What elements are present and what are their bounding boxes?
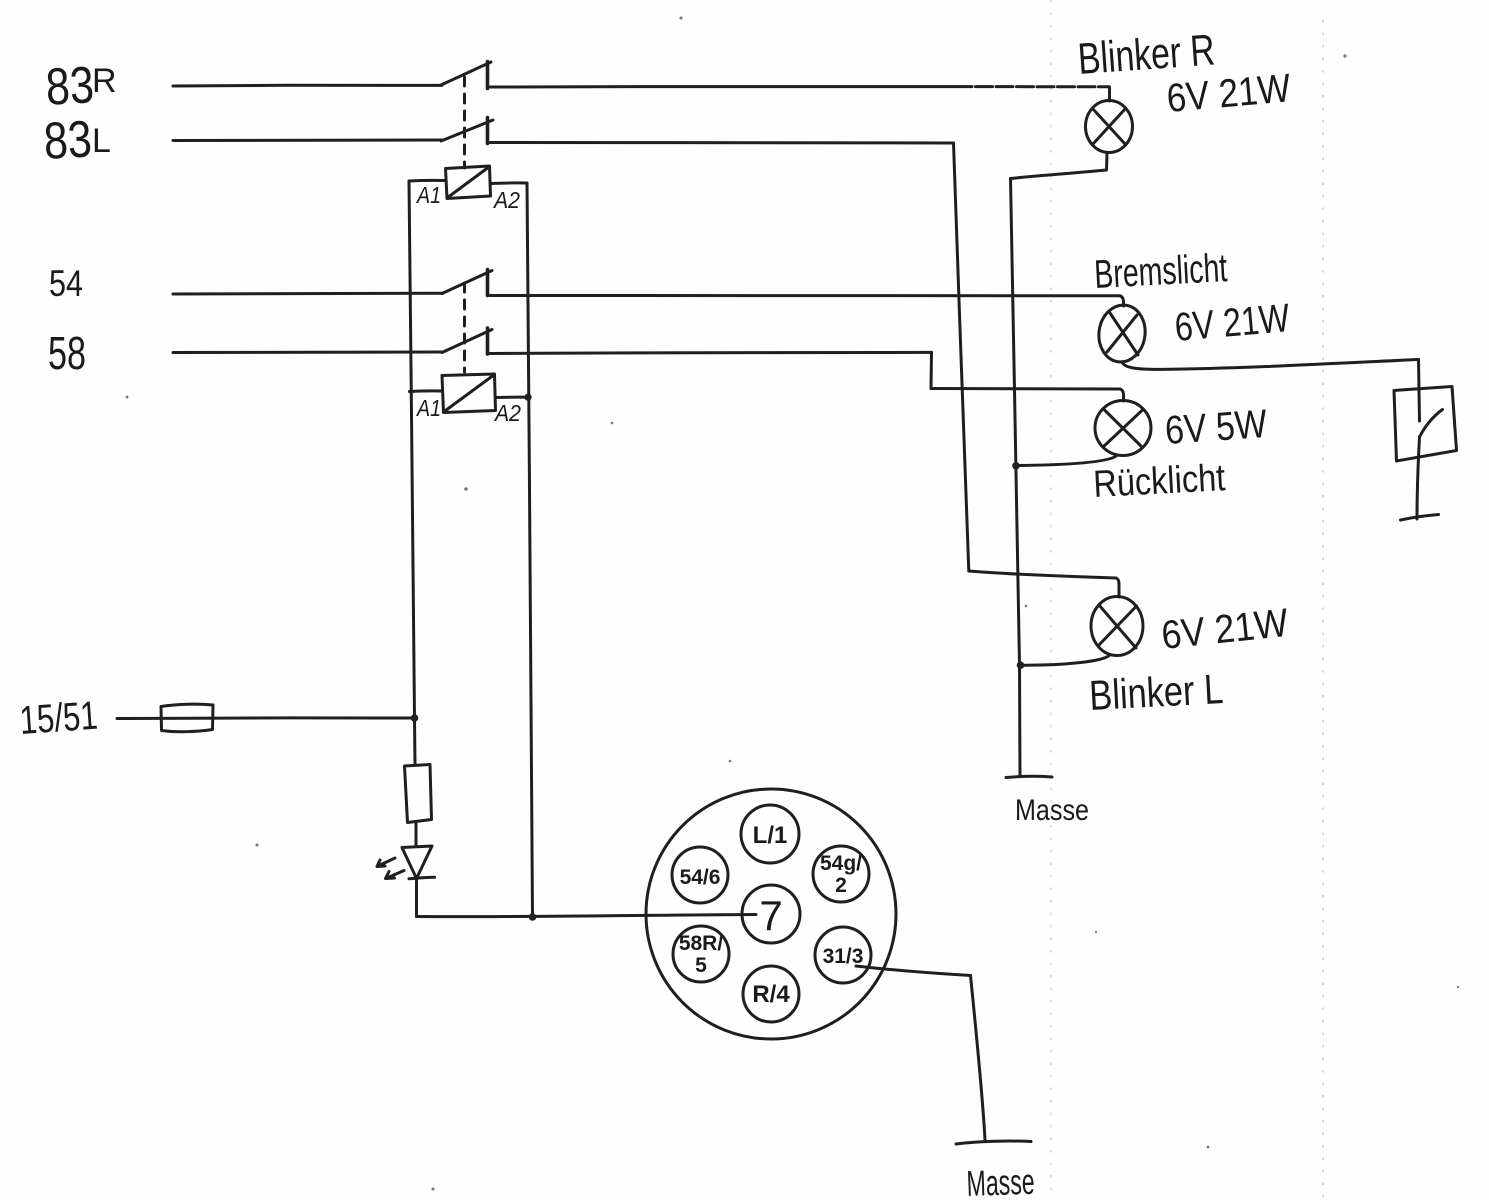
switch contact 83L blade: [441, 120, 493, 141]
svg-text:A2: A2: [492, 187, 520, 213]
LED D1 cathode bar: [409, 877, 435, 879]
connector pin 58R/5: [673, 926, 729, 982]
switch contact 54 fixed tick: [486, 270, 490, 296]
svg-text:A1: A1: [415, 395, 441, 421]
svg-text:Masse: Masse: [966, 1161, 1035, 1200]
relay K2 dashed actuator line: [463, 283, 466, 372]
ground bar right Masse: [1006, 776, 1052, 777]
wire 83L right segment: [490, 141, 954, 145]
relay K2 left lead: [410, 389, 443, 393]
right switch lower lead: [1417, 437, 1420, 519]
LED D1 triangle: [402, 846, 432, 879]
svg-text:54/6: 54/6: [680, 866, 721, 889]
lamp Bremslicht: [1095, 302, 1148, 365]
switch contact 83L fixed tick: [486, 118, 490, 144]
svg-text:Masse: Masse: [1015, 794, 1089, 827]
svg-text:83: 83: [42, 110, 93, 170]
wire 58 left segment: [173, 350, 443, 354]
svg-text:83: 83: [44, 56, 95, 116]
right bus vertical wire: [527, 183, 533, 917]
connector plug outer circle: [646, 789, 896, 1039]
switch contact 58 blade: [442, 330, 492, 353]
switch contact 83R fixed tick: [486, 62, 490, 89]
relay K2 coil box: [442, 374, 496, 413]
switch contact 83R blade: [441, 62, 491, 85]
svg-text:L: L: [92, 122, 111, 160]
fold line right: [1322, 20, 1324, 1200]
svg-text:54: 54: [49, 263, 83, 304]
switch contact 54 blade: [442, 271, 492, 294]
wire 58 jog down: [930, 352, 934, 388]
LED D1 arrow 1: [377, 858, 395, 867]
bottom horizontal wire to connector pin 7: [417, 915, 757, 917]
wire resistor to LED: [415, 823, 418, 847]
ground bar bottom Masse: [956, 1141, 1031, 1144]
label 83 R: [44, 56, 116, 116]
connector pin 31/3: [815, 927, 871, 983]
connector pin 7 center: [742, 885, 800, 943]
svg-text:A2: A2: [493, 400, 521, 426]
connector pin 54/6: [672, 847, 728, 903]
wire 54 right segment to Bremslicht: [490, 294, 1120, 297]
relay K1 coil diagonal: [447, 167, 490, 199]
relay K1 left lead: [409, 179, 446, 183]
wire Bremslicht bottom to right switch: [1122, 360, 1419, 370]
junction 5W to ground bus: [1012, 462, 1020, 470]
lamp Blinker L cross: [1098, 605, 1137, 648]
wire from pin 31/3 to ground: [856, 966, 971, 976]
switch contact 58 fixed tick: [486, 328, 490, 354]
svg-text:54g/: 54g/: [820, 852, 862, 875]
relay K1 coil box: [446, 166, 491, 199]
svg-text:A1: A1: [415, 182, 441, 208]
fuse F1: [161, 704, 213, 732]
wire 58 right segment: [490, 352, 932, 353]
svg-text:58R/: 58R/: [679, 932, 724, 955]
wire corner down into Blinker L lamp: [1116, 578, 1119, 597]
wire Blinker R lamp bottom: [1011, 153, 1108, 179]
svg-text:58: 58: [48, 327, 86, 379]
lamp 5W cross: [1103, 409, 1143, 448]
fold line left: [1050, 0, 1052, 1200]
label 83 L: [42, 110, 111, 170]
connector pin 54g/2: [813, 846, 869, 902]
junction 15/51 to bus: [411, 714, 419, 722]
wire 58 lower horizontal to 5W lamp: [931, 387, 1120, 391]
svg-text:5: 5: [695, 954, 707, 977]
svg-text:31/3: 31/3: [823, 945, 864, 968]
svg-text:R: R: [92, 62, 117, 100]
relay K2 coil diagonal: [444, 375, 495, 413]
wire 54 left segment: [173, 292, 443, 296]
wire corner down into Bremslicht lamp: [1120, 296, 1124, 306]
svg-text:6V 5W: 6V 5W: [1164, 402, 1269, 453]
wire down into right switch: [1419, 360, 1420, 422]
wire 83L left segment: [173, 138, 442, 142]
connector pin L/1: [741, 805, 799, 863]
right lamps ground bus vertical: [1011, 179, 1021, 777]
wire 83L horizontal to Blinker L: [969, 571, 1116, 578]
right switch box: [1394, 387, 1457, 462]
wire 83R right segment to Blinker R lamp: [490, 85, 955, 88]
wire 83R left segment: [173, 84, 442, 88]
connector pin R/4: [743, 966, 799, 1022]
junction Blinker L to ground bus: [1017, 661, 1025, 669]
ground bar right switch: [1401, 515, 1439, 521]
resistor R1: [405, 765, 432, 823]
svg-text:Blinker L: Blinker L: [1088, 665, 1224, 719]
label 15/51 wire: [117, 716, 415, 720]
svg-text:15/51: 15/51: [18, 694, 99, 743]
relay K1 right lead: [491, 181, 528, 185]
lamp 6V 5W Ruecklicht: [1095, 401, 1151, 456]
left bus vertical wire: [409, 181, 415, 764]
wire down to bottom Masse: [971, 976, 986, 1141]
relay K2 right lead: [496, 396, 529, 399]
lamp Blinker R: [1086, 101, 1133, 153]
svg-text:7: 7: [759, 892, 782, 939]
wire 83L vertical drop: [954, 143, 969, 571]
wire LED to bottom bus: [415, 879, 418, 917]
lamp Blinker R cross: [1093, 109, 1126, 145]
junction at K2 right lead: [524, 394, 531, 401]
junction bottom bus with right bus: [529, 913, 537, 921]
lamp Blinker L: [1091, 597, 1143, 656]
svg-text:Bremslicht: Bremslicht: [1093, 246, 1228, 297]
wire corner down into 5W lamp: [1120, 389, 1124, 401]
svg-text:2: 2: [835, 874, 847, 897]
wire tick down into lamp Blinker R: [1108, 87, 1111, 101]
svg-text:Rücklicht: Rücklicht: [1092, 457, 1226, 506]
svg-text:L/1: L/1: [753, 822, 788, 849]
lamp Bremslicht cross: [1107, 313, 1138, 355]
relay K1 dashed actuator line: [463, 77, 466, 168]
LED D1 arrow 2: [386, 871, 405, 879]
svg-text:R/4: R/4: [752, 981, 790, 1008]
right switch blade: [1420, 410, 1443, 438]
wire Blinker L bottom to ground bus: [1021, 655, 1110, 666]
wire 5W lamp bottom to ground bus: [1020, 455, 1118, 466]
